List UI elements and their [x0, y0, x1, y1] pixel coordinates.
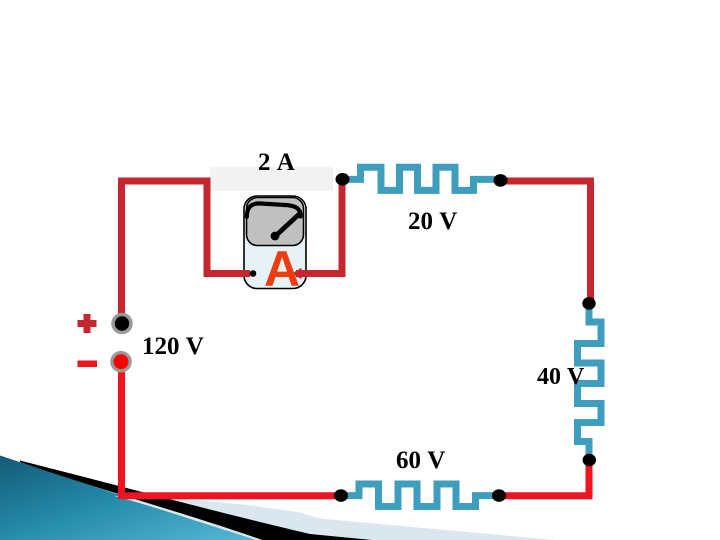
ammeter A letter — [264, 244, 300, 294]
label 60 V — [396, 448, 445, 473]
node F (bottom left of R3) — [334, 489, 348, 502]
label box (light band) behind ammeter top — [210, 167, 333, 191]
resistor R1 (20 V) — [342, 167, 500, 190]
node B (top-right junction) — [494, 174, 508, 187]
wire: left loop vertical (battery + up) — [122, 181, 251, 319]
corner decoration: pale blue triangle — [114, 496, 555, 540]
wire: bottom-right corner up to resistor R2 bottom — [499, 459, 589, 496]
label 2 A — [258, 150, 295, 175]
label 120 V — [142, 334, 204, 359]
ammeter U1 body — [244, 196, 306, 289]
node D (right lower junction) — [583, 454, 596, 467]
plus symbol — [78, 314, 97, 333]
arrowhead on ammeter right wire — [292, 268, 302, 279]
node C (right upper junction) — [582, 297, 595, 310]
wire: top node B to top-right corner down to resistor R2 — [505, 181, 591, 303]
ammeter left terminal dot — [250, 270, 257, 277]
corner decoration: black sliver — [20, 461, 372, 540]
wire: ammeter right to top node — [296, 183, 342, 274]
resistor R2 (40 V) — [578, 304, 602, 460]
minus symbol — [78, 361, 98, 368]
node A (top-left junction) — [336, 173, 350, 186]
node E (bottom right of R3) — [492, 489, 506, 502]
battery - terminal (red) — [110, 351, 132, 373]
ammeter needle pivot dot — [271, 232, 280, 241]
ammeter needle — [276, 214, 300, 236]
battery + terminal (black) — [111, 313, 133, 335]
label 20 V — [408, 209, 457, 234]
ammeter scale arc — [247, 203, 301, 217]
ammeter display bezel — [247, 198, 304, 246]
wire: battery - down to bottom-left corner — [122, 362, 342, 496]
label 40 V — [537, 365, 584, 389]
resistor R3 (60 V) — [341, 484, 499, 507]
